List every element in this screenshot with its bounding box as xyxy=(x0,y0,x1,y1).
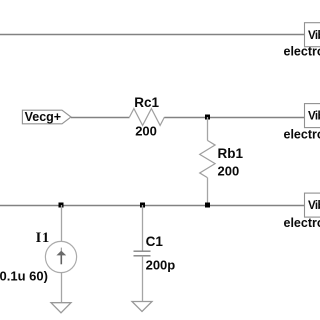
svg-text:electrode: electrode xyxy=(284,127,320,141)
svg-text:electrode: electrode xyxy=(284,45,320,59)
ground (below I1) xyxy=(51,303,71,313)
probe box U1 (electrode, top) xyxy=(305,23,320,47)
probe box U3 (electrode, bottom) xyxy=(305,193,320,217)
node junction bus/I1 xyxy=(59,203,64,208)
node junction bus/Rb1 xyxy=(205,203,210,208)
current source I1 xyxy=(45,241,76,272)
svg-text:electrode: electrode xyxy=(284,216,320,230)
capacitor C1 xyxy=(134,251,151,256)
wire Rb1 top lead xyxy=(207,117,209,140)
node junction at Rc1/Rb1 xyxy=(205,115,210,120)
wire I1 top lead xyxy=(61,205,63,242)
net flag Vecg+ xyxy=(22,110,71,124)
resistor Rc1 xyxy=(130,109,165,126)
svg-text:Rb1: Rb1 xyxy=(218,146,244,161)
wire bottom bus xyxy=(0,205,305,207)
svg-text:Vecg+: Vecg+ xyxy=(25,110,62,124)
ground (below C1) xyxy=(132,302,152,312)
svg-text:200p: 200p xyxy=(146,258,176,273)
probe box U2 (electrode, middle) xyxy=(305,104,320,128)
node junction bus/C1 xyxy=(140,203,145,208)
wire flag to Rc1 xyxy=(71,117,130,119)
svg-text:200: 200 xyxy=(218,163,240,178)
resistor Rb1 xyxy=(200,140,215,177)
wire top bus xyxy=(0,34,305,36)
svg-text:Rc1: Rc1 xyxy=(134,95,159,110)
wire Rc1 to middle box xyxy=(165,117,305,119)
svg-text:200: 200 xyxy=(135,124,157,139)
svg-text:Vib: Vib xyxy=(308,30,320,42)
svg-text:Vib: Vib xyxy=(308,111,320,123)
wire I1 bottom lead xyxy=(61,273,63,303)
wire C1 bottom lead xyxy=(142,256,144,302)
wire C1 top lead xyxy=(142,205,144,251)
svg-text:Vib: Vib xyxy=(308,200,320,212)
wire Rb1 bottom lead xyxy=(207,178,209,205)
svg-text:(0.1u 60): (0.1u 60) xyxy=(0,268,48,283)
svg-text:C1: C1 xyxy=(146,234,164,249)
svg-text:I1: I1 xyxy=(36,230,51,246)
